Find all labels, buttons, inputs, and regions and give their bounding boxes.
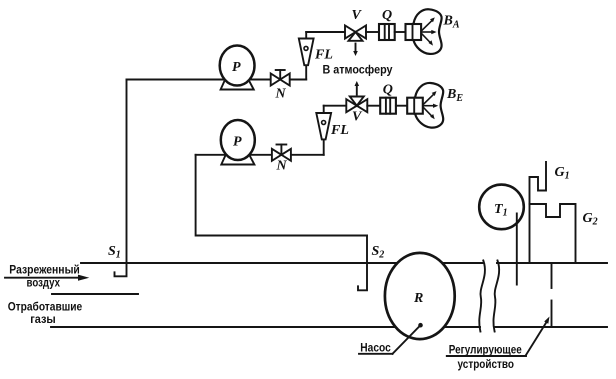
sensor T1 bbox=[479, 185, 524, 230]
duct short inner line bbox=[52, 293, 138, 295]
flowmeter FL2 stem bottom bbox=[323, 139, 325, 155]
wire FL2 to valve V2 bbox=[324, 105, 347, 107]
bag BE box bbox=[407, 98, 423, 114]
wire row1 left drop to S1 probe bbox=[115, 80, 127, 277]
svg-text:воздух: воздух bbox=[27, 278, 61, 290]
svg-text:N: N bbox=[275, 87, 287, 102]
svg-text:P: P bbox=[233, 135, 242, 150]
flowmeter FL1 stem bottom bbox=[305, 64, 307, 80]
svg-text:R: R bbox=[413, 291, 423, 306]
svg-text:устройство: устройство bbox=[458, 359, 515, 371]
conditioner Q1 bbox=[379, 24, 395, 40]
vent arrow down from V1 bbox=[355, 44, 357, 52]
wire Q2 to BE bbox=[396, 105, 407, 107]
svg-text:Разреженный: Разреженный bbox=[9, 265, 80, 277]
wire FL1 to valve V1 bbox=[306, 31, 345, 33]
blower R bbox=[385, 253, 455, 339]
bag BE arrows bbox=[424, 91, 439, 119]
svg-text:Q: Q bbox=[382, 8, 392, 23]
duct top line bbox=[81, 262, 483, 264]
bag BA box bbox=[406, 24, 422, 40]
svg-text:В атмосферу: В атмосферу bbox=[323, 65, 394, 77]
wire Q1 to BA bbox=[395, 31, 406, 33]
flowmeter FL1 funnel bbox=[299, 39, 314, 66]
wire row1 main horizontal bbox=[127, 79, 307, 81]
conditioner Q2 bbox=[380, 98, 396, 114]
wire V1 to Q1 bbox=[366, 31, 379, 33]
flowmeter FL2 stem top bbox=[323, 106, 325, 113]
vent arrow up from V2 bbox=[356, 86, 358, 95]
wire row2 left drop and bottom run to S2 bbox=[196, 155, 367, 236]
wire row2 main horizontal bbox=[196, 154, 324, 156]
flowmeter FL1 float bbox=[304, 46, 308, 50]
flowmeter FL2 float bbox=[322, 121, 326, 125]
probe G2 trap bbox=[530, 204, 576, 263]
bag BA bean outline bbox=[414, 9, 442, 54]
svg-text:FL: FL bbox=[330, 123, 349, 138]
valve V2 three-way bbox=[346, 97, 367, 113]
valve N1 bbox=[271, 70, 290, 86]
bag BA arrows bbox=[422, 17, 437, 45]
pump leader line bbox=[393, 325, 421, 354]
duct bottom line bbox=[51, 326, 480, 328]
svg-text:Регулирующее: Регулирующее bbox=[449, 345, 522, 357]
pump P2 base bbox=[221, 155, 254, 165]
inlet air arrow bbox=[5, 277, 79, 279]
probe S2 bbox=[358, 236, 367, 291]
svg-text:FL: FL bbox=[314, 48, 333, 63]
regulating device dashes bbox=[551, 265, 553, 289]
wire V2 to Q2 bbox=[367, 105, 380, 107]
flowmeter FL2 funnel bbox=[316, 113, 331, 139]
duct break squiggle right bbox=[493, 261, 499, 332]
sensor T1 stem bbox=[516, 214, 518, 285]
flowmeter FL1 stem top bbox=[305, 32, 307, 39]
svg-text:Q: Q bbox=[383, 83, 393, 98]
valve V1 three-way bbox=[345, 26, 366, 41]
pump P2 bbox=[221, 120, 255, 160]
svg-text:Насос: Насос bbox=[360, 343, 391, 355]
pump P1 base bbox=[221, 80, 254, 90]
pump P1 bbox=[220, 46, 255, 86]
svg-text:P: P bbox=[232, 60, 241, 75]
svg-text:газы: газы bbox=[30, 314, 56, 326]
svg-text:N: N bbox=[276, 159, 288, 174]
valve N2 bbox=[272, 145, 291, 161]
regulating device leader arrow bbox=[526, 322, 547, 355]
svg-text:Отработавшие: Отработавшие bbox=[8, 302, 83, 314]
probe G1 trap bbox=[530, 162, 547, 263]
duct break squiggle left bbox=[479, 261, 485, 332]
bag BE bean outline bbox=[415, 83, 443, 128]
